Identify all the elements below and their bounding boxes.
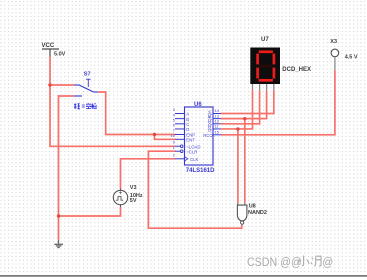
svg-text:5.0V: 5.0V xyxy=(54,52,66,58)
watermark glyph xiao xyxy=(298,256,309,266)
junction node ENP/ENT xyxy=(153,133,156,136)
display segment a xyxy=(259,50,273,53)
wire NAND output to ~CLR pin xyxy=(148,151,241,228)
chip left pin stubs xyxy=(175,114,185,159)
svg-text:4.5 V: 4.5 V xyxy=(345,54,358,60)
svg-text:D: D xyxy=(186,127,189,132)
svg-text:15: 15 xyxy=(215,131,219,135)
svg-text:S7: S7 xyxy=(84,72,91,78)
svg-text:13: 13 xyxy=(215,114,219,118)
svg-text:2: 2 xyxy=(173,153,175,157)
svg-text:DCD_HEX: DCD_HEX xyxy=(282,67,311,73)
wire V3 plus to CLK pin xyxy=(121,159,176,189)
junction node QB/NAND xyxy=(243,117,246,120)
display U7 DCD_HEX body xyxy=(250,48,280,85)
wire QD tap to NAND input A xyxy=(237,129,239,203)
svg-text:X3: X3 xyxy=(330,39,337,45)
pin bubble ~LOAD xyxy=(180,145,183,148)
probe X3 stub xyxy=(334,57,336,71)
svg-text:U8: U8 xyxy=(249,203,256,209)
wire VCC rail down to ~LOAD pin xyxy=(50,85,175,146)
window bottom border xyxy=(0,275,367,277)
wire QD to display pin 1 xyxy=(221,90,253,129)
svg-text:U6: U6 xyxy=(194,102,202,108)
display segment d xyxy=(259,79,273,82)
svg-text:RCO: RCO xyxy=(203,133,213,138)
wire junction to ground symbol xyxy=(58,216,60,240)
svg-text:9: 9 xyxy=(173,141,175,145)
svg-text:6: 6 xyxy=(173,124,175,128)
svg-text:4: 4 xyxy=(173,113,175,117)
svg-text:@: @ xyxy=(322,257,333,269)
gate input stubs xyxy=(238,203,245,205)
wire ground rail to V3 minus xyxy=(59,207,121,216)
junction node QD/NAND xyxy=(236,127,239,130)
svg-text:74LS161D: 74LS161D xyxy=(186,168,215,174)
ground symbol xyxy=(54,240,63,248)
chip U6 74LS161D body xyxy=(185,107,214,165)
wire QA to display pin 4 xyxy=(221,90,274,113)
junction node VCC/switch xyxy=(48,83,51,86)
svg-text:VCC: VCC xyxy=(42,43,55,49)
display segment b xyxy=(273,54,276,65)
wire QB to display pin 3 xyxy=(221,90,267,118)
display pin stubs xyxy=(253,84,274,90)
gate output bubble xyxy=(241,221,244,224)
display segment e xyxy=(256,68,259,79)
svg-text:NAND2: NAND2 xyxy=(248,210,267,216)
svg-text:ENT: ENT xyxy=(186,137,195,142)
svg-text:V3: V3 xyxy=(130,185,137,191)
wire VCC stem to junction xyxy=(49,57,51,86)
svg-text:CLK: CLK xyxy=(190,157,198,162)
wire RCO to probe X3 xyxy=(221,70,335,135)
svg-text:12: 12 xyxy=(215,120,219,124)
svg-text:7: 7 xyxy=(173,129,175,133)
svg-text:5: 5 xyxy=(173,119,175,123)
gate output stub xyxy=(241,224,243,225)
chip right pin stubs xyxy=(213,114,221,135)
wire QB tap to NAND input B xyxy=(244,119,246,203)
svg-text:CSDN @@: CSDN @@ xyxy=(247,257,302,269)
V3 square wave glyph xyxy=(116,197,123,201)
svg-text:U7: U7 xyxy=(261,37,269,43)
wire QC to display pin 2 xyxy=(221,90,260,124)
probe X3 xyxy=(331,49,339,57)
display segment c xyxy=(273,68,276,79)
watermark glyph feng xyxy=(311,256,321,266)
switch S7 xyxy=(73,79,98,96)
junction node ground rail xyxy=(57,214,60,217)
wire junction A to switch throw 1 xyxy=(50,84,74,86)
svg-text:14: 14 xyxy=(215,109,219,113)
V3 terminal stubs xyxy=(120,189,122,208)
svg-text:QD: QD xyxy=(207,126,212,132)
label key = space xyxy=(74,103,96,109)
svg-text:~CLR: ~CLR xyxy=(186,149,197,154)
wire switch common down to ENP/ENT xyxy=(98,92,175,135)
display segment f xyxy=(256,54,259,65)
svg-text:11: 11 xyxy=(215,125,219,129)
pin bubble ~CLR xyxy=(180,150,183,153)
power VCC symbol xyxy=(42,49,59,57)
wire switch throw 2 to ground rail xyxy=(59,96,74,216)
svg-text:10: 10 xyxy=(171,134,175,138)
display segment g unlit xyxy=(259,65,273,68)
svg-text:5V: 5V xyxy=(130,198,137,204)
pin clock triangle CLK xyxy=(185,157,188,161)
V3 plus mark xyxy=(119,191,122,194)
svg-text:1: 1 xyxy=(173,146,175,150)
watermark CSDN xyxy=(247,256,333,270)
wire branch to ENT pin xyxy=(155,135,176,140)
svg-text:3: 3 xyxy=(173,108,175,112)
gate U8 NAND2 body xyxy=(237,205,247,221)
clock source V3 xyxy=(113,190,127,204)
